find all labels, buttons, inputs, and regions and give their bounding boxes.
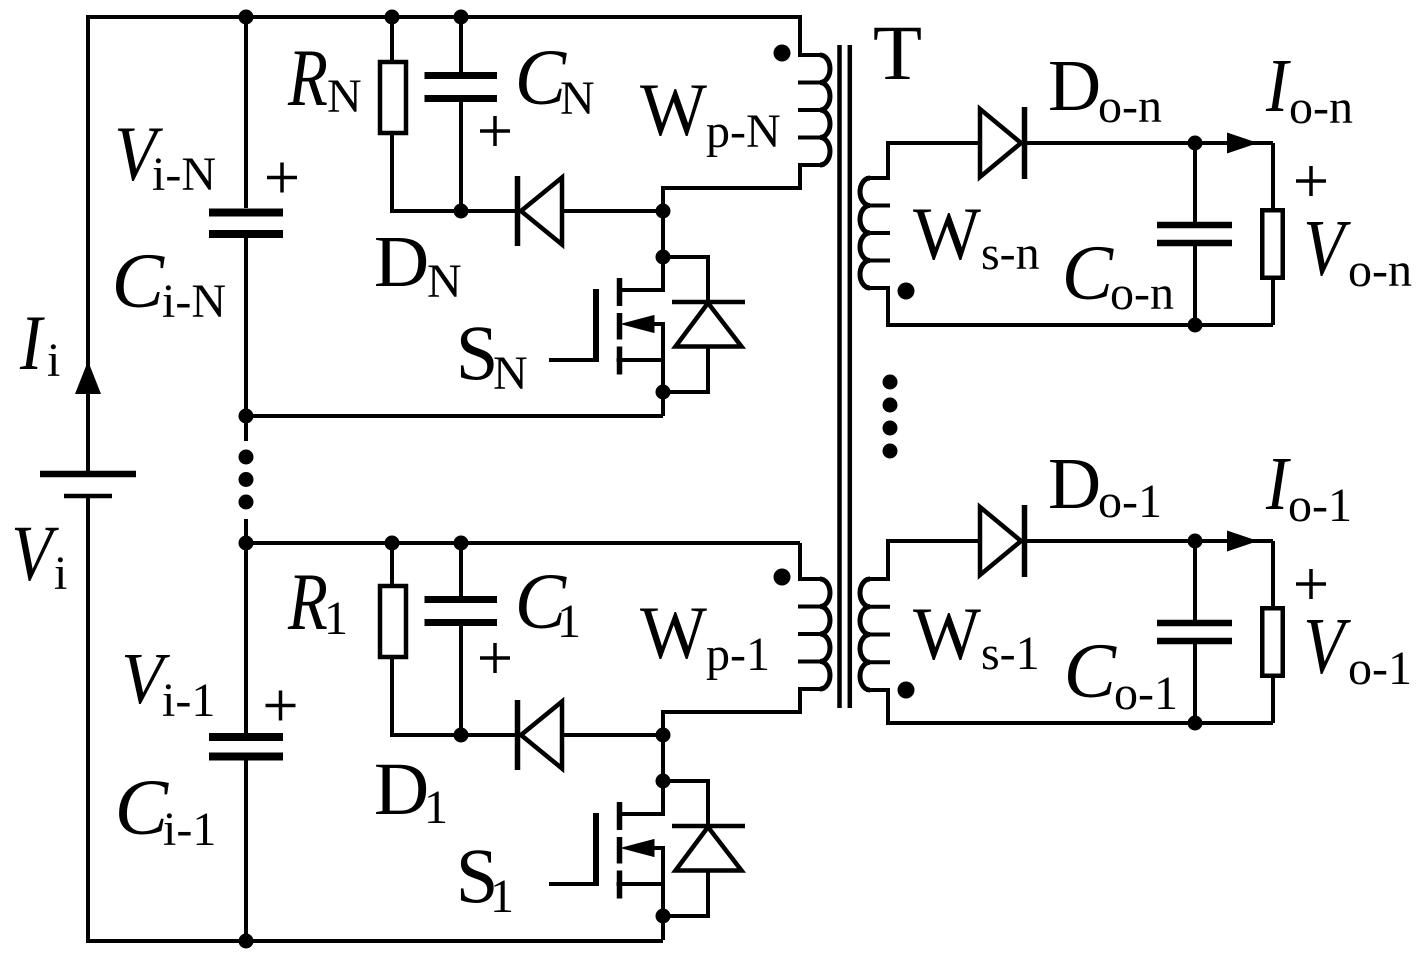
svg-text:C: C bbox=[1064, 627, 1117, 714]
ellipsis dot 3 (divider column) bbox=[239, 495, 254, 510]
wire: Ws-1 top to diode Do-1 bbox=[886, 539, 980, 543]
wire: cell-N top bus bbox=[246, 15, 800, 19]
junction: output node (Co-n top) bbox=[1188, 136, 1203, 151]
junction: S1 source / body-diode bottom bbox=[656, 909, 671, 924]
wire: Do-1 cathode to output node bbox=[1025, 539, 1274, 543]
diode Do-n cathode bar bbox=[1022, 107, 1028, 179]
svg-text:I: I bbox=[1265, 43, 1291, 128]
wire: Wp-N bottom to SN drain bbox=[663, 165, 800, 292]
wire: Co-1 bottom to return bbox=[1193, 644, 1197, 723]
transformer primary winding Wp-N bbox=[798, 15, 802, 55]
svg-text:p-1: p-1 bbox=[706, 628, 770, 681]
svg-text:i-1: i-1 bbox=[163, 803, 216, 856]
polarity + of Ci-N bbox=[267, 163, 297, 193]
svg-text:C: C bbox=[515, 33, 567, 122]
polarity dot of Ws-n bbox=[898, 283, 915, 300]
svg-text:D: D bbox=[1048, 442, 1101, 524]
diode Do-1 triangle bbox=[980, 507, 1021, 575]
junction: SN source / body-diode bottom bbox=[656, 385, 671, 400]
svg-text:1: 1 bbox=[557, 595, 581, 648]
ellipsis dot 1 (divider column) bbox=[239, 450, 254, 465]
diode DN triangle bbox=[521, 178, 562, 245]
body diode of S1 triangle bbox=[676, 827, 742, 871]
svg-text:o-1: o-1 bbox=[1348, 642, 1412, 695]
wire: body diode of SN, top branch bbox=[663, 257, 708, 302]
wire: top bus to R1 bbox=[390, 543, 394, 586]
wire: R1 bottom to snubber diode D1 bbox=[392, 657, 515, 735]
svg-text:T: T bbox=[873, 10, 922, 97]
capacitor Co-1 top plate bbox=[1157, 620, 1232, 627]
junction: drain node of S1 bbox=[656, 728, 671, 743]
body diode of S1 cathode bar bbox=[672, 824, 745, 829]
svg-text:D: D bbox=[374, 221, 429, 302]
diode Do-1 cathode bar bbox=[1022, 505, 1028, 577]
wire: body diode of S1, bottom branch bbox=[663, 871, 708, 917]
svg-text:p-N: p-N bbox=[706, 105, 781, 158]
resistor RN bbox=[380, 62, 406, 133]
junction: output return node (Co-n bottom) bbox=[1188, 318, 1203, 333]
wire: output node to load Vo-1 bbox=[1271, 541, 1275, 606]
svg-text:s-1: s-1 bbox=[981, 627, 1040, 680]
svg-text:o-1: o-1 bbox=[1288, 479, 1352, 532]
polarity + of C1 bbox=[480, 643, 510, 673]
capacitor Ci-N top plate bbox=[209, 209, 283, 217]
diode DN cathode bar bbox=[515, 176, 521, 246]
capacitor C1 top plate bbox=[425, 596, 498, 603]
junction: output node (Co-1 top) bbox=[1188, 534, 1203, 549]
body diode of SN triangle bbox=[676, 303, 742, 347]
wire: Ws-n top to diode Do-n bbox=[886, 141, 980, 145]
ellipsis dot 4 (secondary side) bbox=[883, 444, 898, 459]
wire: left rail top + top bus from source to cell-N bbox=[88, 17, 800, 471]
polarity dot of Ws-1 bbox=[898, 682, 915, 699]
wire: body diode of SN, bottom branch bbox=[663, 347, 708, 393]
capacitor Co-n bottom plate bbox=[1157, 240, 1232, 247]
svg-text:R: R bbox=[287, 556, 328, 646]
wire: Do-n cathode to output node bbox=[1025, 141, 1274, 145]
svg-text:D: D bbox=[1048, 44, 1101, 126]
polarity dot of Wp-N bbox=[774, 45, 791, 62]
junction: cell-1 top node bbox=[239, 536, 254, 551]
wire: output cell n return bus bbox=[886, 323, 1273, 327]
arrow: input current Ii (pointing up) bbox=[75, 361, 101, 394]
polarity dot of Wp-1 bbox=[774, 569, 791, 586]
wire: Ci-1 bottom to bottom bus bbox=[244, 760, 248, 941]
svg-text:C: C bbox=[1062, 230, 1115, 317]
wire: load bottom to return bbox=[1271, 678, 1275, 723]
svg-text:i-N: i-N bbox=[152, 148, 216, 201]
svg-text:i-1: i-1 bbox=[162, 674, 215, 727]
junction: top bus / divider column bbox=[239, 10, 254, 25]
battery Vi negative plate (short) bbox=[64, 494, 112, 499]
polarity + of Ci-1 bbox=[266, 691, 296, 721]
wire: C1 bottom to snubber node bbox=[459, 626, 463, 735]
transformer primary winding Wp-1 bbox=[798, 543, 802, 579]
transformer T core line 2 bbox=[848, 45, 853, 708]
svg-text:s-n: s-n bbox=[981, 227, 1040, 280]
svg-text:R: R bbox=[287, 32, 328, 122]
svg-text:o-n: o-n bbox=[1289, 81, 1353, 134]
wire: Ci-N bottom to cell-N return node bbox=[244, 238, 248, 441]
junction: snubber node (C1/D1) bbox=[454, 728, 469, 743]
svg-text:N: N bbox=[493, 347, 528, 400]
transformer T core line 1 bbox=[837, 45, 842, 708]
svg-text:V: V bbox=[1303, 602, 1351, 691]
wire: cell-N return bus bbox=[246, 414, 663, 418]
ellipsis dot 1 (secondary side) bbox=[883, 375, 898, 390]
svg-text:1: 1 bbox=[324, 592, 348, 645]
wire: cell-1 top bus bbox=[246, 541, 800, 545]
junction: C1 tap on top bus bbox=[454, 536, 469, 551]
load resistor (output Vo-n) bbox=[1262, 210, 1283, 278]
svg-text:N: N bbox=[327, 70, 362, 123]
wire: output node to Co-n bbox=[1193, 143, 1197, 222]
wire: divider column to Ci-1 top bbox=[244, 519, 248, 733]
resistor R1 bbox=[380, 586, 406, 657]
wire: load bottom to return bbox=[1271, 280, 1275, 325]
wire: left rail bottom + bottom bus of cell-1 bbox=[88, 498, 663, 941]
junction: R1 tap on top bus bbox=[385, 536, 400, 551]
svg-text:C: C bbox=[115, 764, 170, 852]
transformer secondary winding Ws-1 bbox=[886, 541, 890, 579]
wire: top bus to CN bbox=[459, 17, 463, 72]
svg-text:V: V bbox=[1303, 204, 1351, 293]
wire: top bus to C1 bbox=[459, 543, 463, 596]
ellipsis dot 2 (divider column) bbox=[239, 472, 254, 487]
arrow: output current Io-1 bbox=[1227, 531, 1258, 552]
junction: CN tap on top bus bbox=[454, 10, 469, 25]
junction: snubber node (CN/DN) bbox=[454, 204, 469, 219]
diode Do-n triangle bbox=[980, 109, 1021, 177]
svg-text:W: W bbox=[640, 591, 707, 674]
transformer secondary winding Ws-n bbox=[886, 143, 890, 178]
svg-text:o-n: o-n bbox=[1098, 80, 1162, 133]
junction: S1 drain / body-diode top bbox=[656, 774, 671, 789]
svg-text:o-n: o-n bbox=[1348, 244, 1412, 297]
svg-text:C: C bbox=[112, 237, 165, 324]
load resistor (output Vo-1) bbox=[1262, 608, 1283, 676]
wire: D1 anode to drain node bbox=[562, 733, 663, 737]
svg-text:W: W bbox=[913, 592, 982, 676]
transistor SN (MOSFET with body diode) bbox=[549, 278, 665, 416]
battery Vi positive plate (long) bbox=[40, 471, 136, 478]
svg-text:W: W bbox=[640, 68, 707, 151]
body diode of SN cathode bar bbox=[672, 300, 745, 305]
wire: Co-n bottom to return bbox=[1193, 246, 1197, 325]
svg-text:o-n: o-n bbox=[1110, 267, 1174, 320]
wire: output cell 1 return bus bbox=[886, 721, 1273, 725]
polarity + of CN bbox=[480, 116, 510, 146]
wire: output node to load Vo-n bbox=[1271, 143, 1275, 208]
wire: RN bottom to snubber diode DN bbox=[392, 133, 515, 211]
junction: drain node of SN bbox=[656, 204, 671, 219]
polarity + of Vo-1 bbox=[1296, 569, 1326, 599]
junction: bottom bus / divider column bbox=[239, 934, 254, 949]
svg-text:W: W bbox=[913, 192, 982, 276]
svg-text:S: S bbox=[456, 309, 499, 396]
transistor S1 (MOSFET with body diode) bbox=[549, 802, 665, 940]
junction: SN drain / body-diode top bbox=[656, 250, 671, 265]
junction: RN tap on top bus bbox=[385, 10, 400, 25]
svg-text:1: 1 bbox=[424, 781, 448, 834]
wire: node A down to Ci-N top bbox=[244, 17, 248, 208]
wire: CN bottom to snubber node bbox=[459, 102, 463, 211]
capacitor Co-1 bottom plate bbox=[1157, 638, 1232, 645]
svg-text:i: i bbox=[54, 547, 67, 600]
svg-text:N: N bbox=[427, 255, 462, 308]
svg-text:N: N bbox=[560, 72, 595, 125]
ellipsis dot 2 (secondary side) bbox=[883, 398, 898, 413]
capacitor Ci-N bottom plate bbox=[209, 230, 283, 238]
wire: top bus to RN bbox=[390, 17, 394, 62]
diode D1 triangle bbox=[521, 702, 562, 769]
ellipsis dot 3 (secondary side) bbox=[883, 421, 898, 436]
junction: cell-N return node bbox=[239, 409, 254, 424]
svg-text:I: I bbox=[19, 299, 46, 386]
svg-text:1: 1 bbox=[490, 870, 514, 923]
capacitor Co-n top plate bbox=[1157, 222, 1232, 229]
capacitor Ci-1 bottom plate bbox=[209, 753, 283, 761]
diode D1 cathode bar bbox=[515, 700, 521, 770]
wire: DN anode to drain node bbox=[562, 209, 663, 213]
wire: output node to Co-1 bbox=[1193, 541, 1197, 620]
capacitor CN top plate bbox=[425, 72, 498, 79]
svg-text:D: D bbox=[374, 748, 429, 831]
wire: body diode of S1, top branch bbox=[663, 781, 708, 826]
junction: output return node (Co-1 bottom) bbox=[1188, 716, 1203, 731]
capacitor Ci-1 top plate bbox=[209, 733, 283, 741]
capacitor CN bottom plate bbox=[425, 95, 498, 102]
polarity + of Vo-n bbox=[1296, 166, 1326, 196]
svg-text:o-1: o-1 bbox=[1114, 667, 1178, 720]
capacitor C1 bottom plate bbox=[425, 619, 498, 626]
arrow: output current Io-n bbox=[1227, 133, 1258, 154]
wire: Wp-1 bottom to S1 drain bbox=[663, 689, 800, 816]
svg-text:o-1: o-1 bbox=[1098, 475, 1162, 528]
svg-text:i: i bbox=[47, 334, 60, 387]
svg-text:i-N: i-N bbox=[162, 275, 226, 328]
